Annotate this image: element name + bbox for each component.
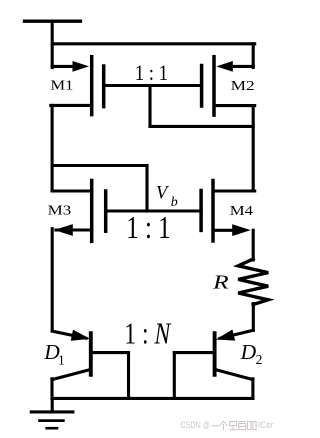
svg-text:M3: M3 <box>48 203 72 218</box>
wire R to D2 <box>252 304 255 331</box>
wire M3 drain to D1 <box>51 229 54 331</box>
wire D1 base drop <box>127 353 130 399</box>
transistor M4 <box>201 181 213 242</box>
svg-text:b: b <box>171 195 178 210</box>
wire M2 drain to M4 source <box>252 106 255 191</box>
svg-text:D: D <box>240 340 257 364</box>
wire D2 emitter diagonal <box>220 330 253 338</box>
wire node Vb branch vertical <box>145 166 148 212</box>
wire M4 source <box>213 189 255 192</box>
wire node Vb branch horizontal <box>52 164 147 167</box>
wire VDD stem <box>51 21 54 67</box>
wire ground rail <box>52 397 253 400</box>
wire M2 source <box>227 65 253 68</box>
arrow M3 drain <box>54 224 73 236</box>
transistor M2 <box>202 57 214 115</box>
arrow M1 source <box>73 61 90 72</box>
wire gate stub down <box>148 86 151 127</box>
svg-text:1 : 1: 1 : 1 <box>126 209 170 245</box>
transistor M1 <box>92 57 104 115</box>
arrow M4 drain <box>232 224 251 236</box>
wire M4 drain corner to R <box>252 230 255 260</box>
power supply bar VDD <box>25 20 81 23</box>
svg-text:M1: M1 <box>51 78 74 93</box>
wire Vb gate rail <box>106 209 201 212</box>
wire D1 base <box>91 351 129 354</box>
wire D2 collector drop <box>251 379 254 399</box>
wire D1 collector drop <box>50 379 53 399</box>
arrow D2 emitter <box>214 330 235 345</box>
svg-text:1 : N: 1 : N <box>124 316 172 351</box>
svg-text:1: 1 <box>58 353 65 368</box>
wire M1 drain to M3 source <box>51 105 54 191</box>
wire M1 source <box>52 65 78 68</box>
svg-text:R: R <box>212 272 229 294</box>
wire M3 drain <box>56 228 92 231</box>
svg-text:1 : 1: 1 : 1 <box>135 60 168 85</box>
resistor R <box>238 259 268 305</box>
wire gate to M2 drain <box>150 125 253 128</box>
wire M3 source <box>52 189 92 192</box>
transistor D1 (diode-connected) <box>52 331 91 379</box>
svg-text:M2: M2 <box>231 79 255 94</box>
svg-text:M4: M4 <box>230 204 253 219</box>
wire D2 base drop <box>173 353 176 399</box>
ground <box>31 398 73 428</box>
svg-text:CSDN @: CSDN @ <box>181 420 211 430</box>
svg-text:2: 2 <box>256 352 263 367</box>
wire M1 drain <box>51 104 92 107</box>
arrow D1 emitter <box>71 330 91 345</box>
wire M2 drain <box>214 104 255 107</box>
wire M1-M2 gate <box>104 84 202 87</box>
arrow M2 source <box>216 61 233 72</box>
svg-text:ICer: ICer <box>258 420 274 430</box>
transistor D2 (diode-connected) <box>215 333 253 379</box>
wire M2 source drop <box>252 44 255 68</box>
transistor M3 <box>92 181 106 242</box>
wire D2 base <box>174 351 214 354</box>
watermark CSDN <box>181 420 274 430</box>
wire VDD rail <box>52 42 255 45</box>
wire M4 drain <box>213 229 234 232</box>
